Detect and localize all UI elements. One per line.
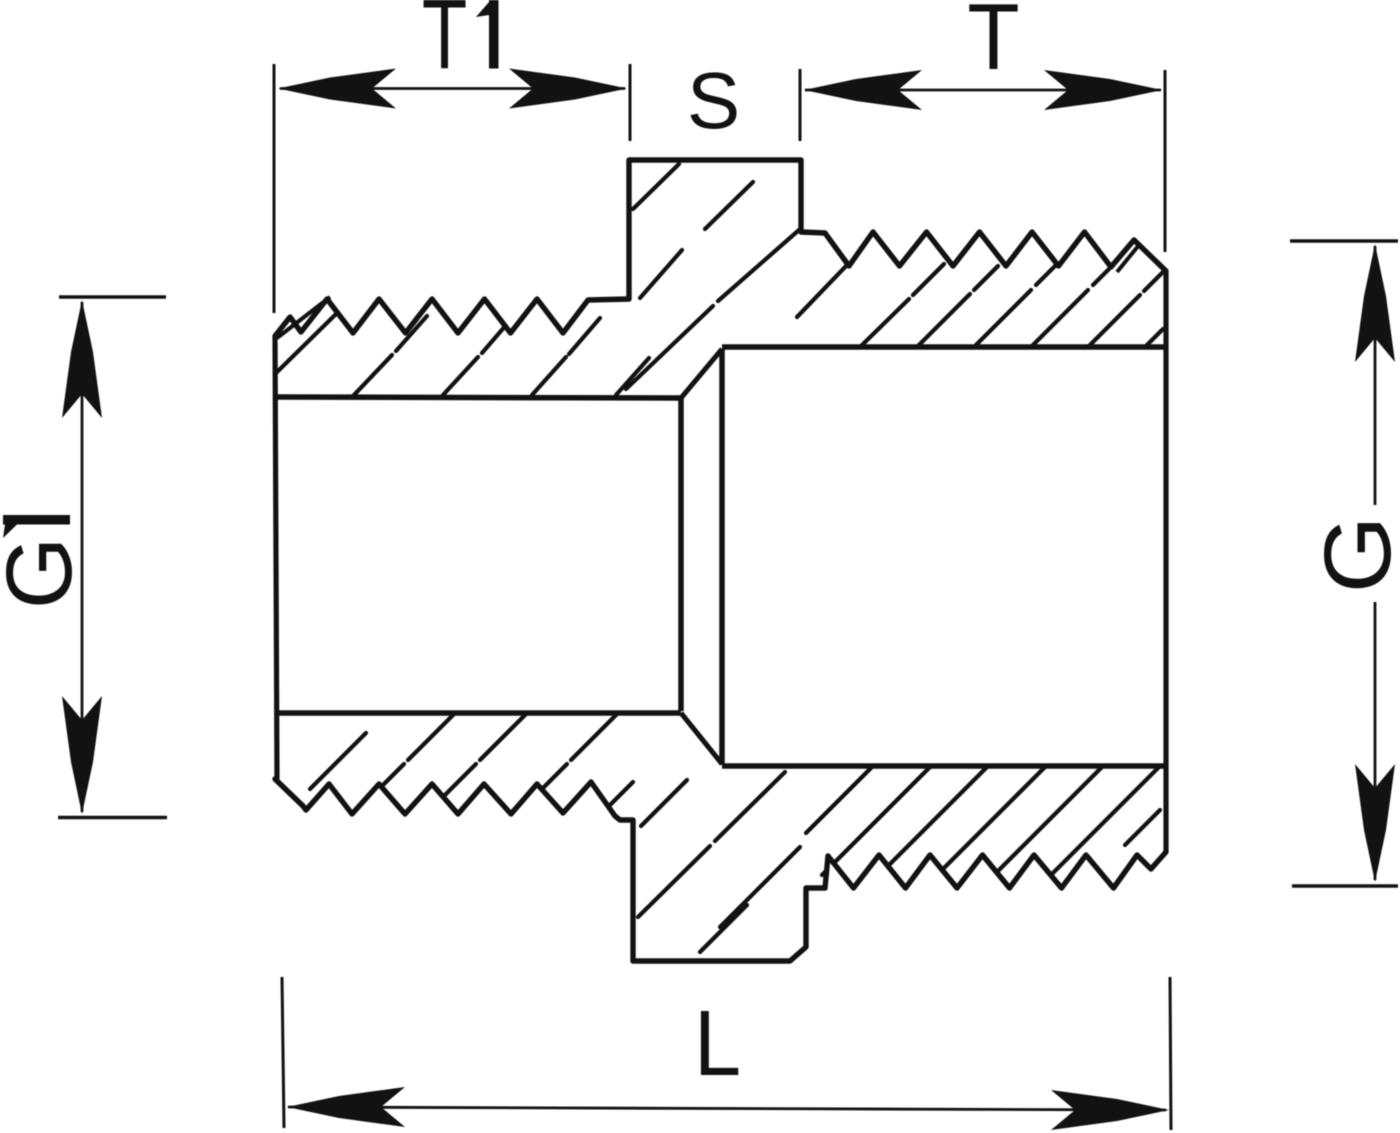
- svg-text:T: T: [422, 0, 467, 90]
- T1 dimension line: [280, 87, 625, 90]
- svg-text:G: G: [1304, 516, 1400, 594]
- S/T extension tick: [799, 69, 802, 141]
- L dimension line: [288, 1107, 1166, 1110]
- outer profile: small thread G1 bottom, hex flat, large thread G bottom: [275, 779, 1166, 961]
- bore top large: [722, 344, 1166, 350]
- G1 dimension line: [81, 302, 84, 812]
- bore cone bottom edge: [681, 713, 722, 764]
- bore top small: [277, 397, 681, 398]
- thread runout line right: [1117, 245, 1139, 272]
- bore bottom large: [722, 763, 1166, 769]
- section hatching upper body: [276, 164, 1163, 395]
- T1 extension line left: [273, 64, 276, 313]
- L extension line left: [282, 977, 284, 1128]
- svg-text:S: S: [687, 56, 740, 145]
- G dimension ticks: [1290, 239, 1398, 243]
- bore cone near vertical edge: [678, 398, 684, 711]
- outer profile: small thread G1 top, hex flat, large thread G top: [275, 160, 1166, 336]
- bore bottom small: [277, 710, 681, 716]
- svg-text:G: G: [0, 537, 91, 609]
- bore cone far vertical edge: [719, 349, 725, 765]
- G dimension line: [1374, 246, 1377, 505]
- svg-text:T: T: [967, 0, 1019, 90]
- T dimension line: [805, 89, 1161, 92]
- T1/S extension tick: [629, 64, 632, 141]
- svg-text:L: L: [694, 991, 741, 1095]
- section hatching lower body: [310, 713, 1160, 952]
- G1 dimension ticks: [59, 295, 166, 299]
- T extension line right: [1164, 70, 1167, 252]
- right end face: [1163, 271, 1168, 852]
- thread runout line left: [277, 297, 330, 338]
- left end face: [275, 336, 277, 779]
- bore cone top edge: [681, 349, 722, 398]
- L extension line right: [1170, 977, 1171, 1130]
